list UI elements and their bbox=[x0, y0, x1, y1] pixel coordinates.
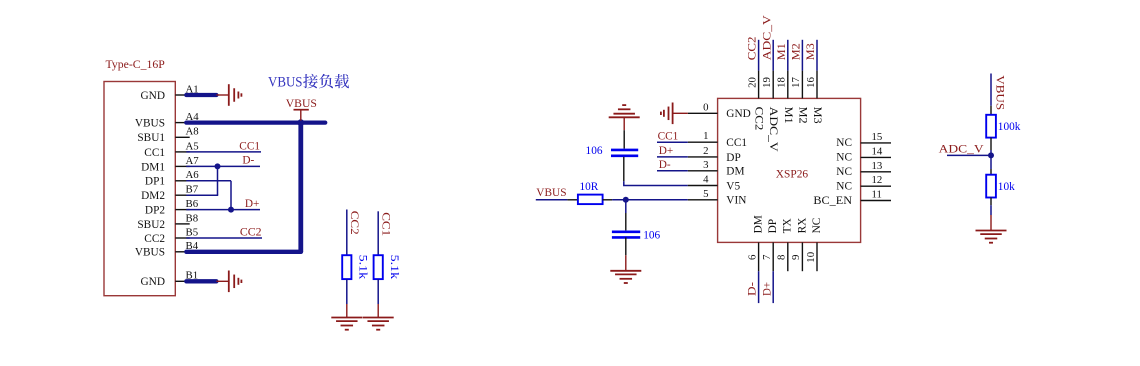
svg-text:ADC_V: ADC_V bbox=[761, 14, 773, 60]
net label CC2 (rotated) bbox=[348, 211, 360, 235]
capacitor C1 106 lead top bbox=[623, 130, 625, 148]
wire B6 DP2 bbox=[186, 209, 260, 211]
svg-text:NC: NC bbox=[836, 152, 852, 164]
resistor value 10R bbox=[580, 181, 599, 193]
svg-text:B7: B7 bbox=[186, 184, 199, 196]
svg-text:15: 15 bbox=[872, 131, 883, 143]
ground at A1 bbox=[216, 84, 241, 106]
capacitor C1 106 plates bbox=[611, 150, 638, 156]
net label ADC_V bbox=[939, 144, 985, 156]
junction VBUS trunk top bbox=[297, 119, 304, 126]
svg-text:RX: RX bbox=[796, 218, 808, 234]
power port VBUS bbox=[286, 98, 317, 121]
wire node to 10k bbox=[990, 155, 992, 174]
IC pin 18 M1 (top) bbox=[776, 40, 794, 124]
wire CC2 B5 bbox=[186, 237, 262, 239]
svg-text:20: 20 bbox=[746, 77, 758, 88]
svg-text:10k: 10k bbox=[998, 181, 1015, 193]
svg-text:6: 6 bbox=[746, 254, 758, 260]
junction VIN node bbox=[623, 197, 629, 203]
svg-text:VBUS: VBUS bbox=[286, 98, 317, 110]
IC pin 15 NC bbox=[836, 131, 891, 149]
svg-text:8: 8 bbox=[776, 255, 788, 260]
svg-text:VBUS: VBUS bbox=[994, 75, 1006, 110]
wire VBUS B4 thick bbox=[186, 250, 301, 254]
IC pin 9 RX (bottom) bbox=[790, 218, 808, 272]
connector pin A6 DP1 bbox=[145, 169, 199, 188]
svg-text:9: 9 bbox=[790, 255, 802, 260]
svg-text:A5: A5 bbox=[186, 140, 199, 152]
svg-text:D-: D- bbox=[747, 282, 759, 296]
svg-text:5.1k: 5.1k bbox=[388, 255, 400, 280]
junction D- bbox=[215, 163, 221, 169]
svg-text:4: 4 bbox=[703, 174, 709, 186]
svg-text:VIN: VIN bbox=[726, 195, 746, 207]
IC pin 7 DP (bottom) bbox=[761, 219, 779, 271]
IC pin 17 M2 (top) bbox=[790, 40, 808, 124]
svg-text:NC: NC bbox=[836, 137, 852, 149]
junction ADC_V node bbox=[988, 152, 994, 158]
svg-text:A6: A6 bbox=[186, 169, 200, 181]
wire D- IC pin6 bbox=[758, 271, 760, 303]
svg-text:CC2: CC2 bbox=[747, 36, 759, 60]
svg-text:CC2: CC2 bbox=[240, 226, 262, 238]
svg-text:B5: B5 bbox=[186, 226, 199, 238]
net label CC1 (rotated) bbox=[379, 212, 391, 236]
svg-text:ADC_V: ADC_V bbox=[767, 107, 779, 153]
connector pin A8 SBU1 bbox=[137, 126, 198, 145]
svg-text:106: 106 bbox=[643, 230, 660, 242]
svg-text:16: 16 bbox=[805, 77, 817, 88]
svg-text:CC1: CC1 bbox=[379, 212, 391, 236]
svg-text:DM2: DM2 bbox=[141, 190, 165, 202]
svg-text:11: 11 bbox=[872, 189, 882, 201]
IC pin 12 NC bbox=[836, 174, 891, 192]
capacitor C2 value 106 bbox=[643, 230, 660, 242]
wire 100k to ADC_V node bbox=[990, 138, 992, 156]
resistor R? 10R body bbox=[578, 195, 603, 205]
resistor 5.1k (CC1 pulldown) body bbox=[374, 255, 383, 279]
svg-text:BC_EN: BC_EN bbox=[813, 195, 852, 207]
wire CC2 to ground bbox=[346, 279, 348, 317]
resistor 5.1k (CC2 pulldown) body bbox=[342, 255, 351, 279]
svg-text:19: 19 bbox=[761, 77, 773, 88]
note VBUS to load (Chinese) bbox=[268, 74, 349, 91]
svg-text:CC1: CC1 bbox=[239, 140, 260, 152]
svg-text:D+: D+ bbox=[761, 282, 773, 296]
op IC U1 XSP26 body bbox=[718, 98, 861, 242]
ground below C2 bbox=[610, 271, 641, 283]
resistor value 100k bbox=[998, 121, 1021, 133]
svg-text:GND: GND bbox=[726, 108, 750, 120]
resistor value 5.1k bbox=[357, 255, 369, 280]
svg-text:A7: A7 bbox=[186, 155, 200, 167]
svg-text:VBUS: VBUS bbox=[135, 247, 165, 259]
svg-text:ADC_V: ADC_V bbox=[939, 144, 985, 156]
svg-text:1: 1 bbox=[703, 130, 708, 142]
svg-text:GND: GND bbox=[141, 90, 165, 102]
connector pin B8 SBU2 bbox=[137, 212, 198, 231]
svg-text:D+: D+ bbox=[659, 145, 674, 157]
wire CC1 to ground bbox=[377, 279, 379, 317]
svg-text:18: 18 bbox=[776, 77, 788, 88]
svg-text:A8: A8 bbox=[186, 126, 199, 138]
capacitor C2 106 plates bbox=[612, 232, 640, 238]
svg-text:VBUS: VBUS bbox=[268, 74, 303, 90]
wire CC2 vertical bbox=[346, 210, 348, 256]
wire VBUS to 10R bbox=[536, 199, 578, 201]
svg-text:5.1k: 5.1k bbox=[357, 255, 369, 280]
connector pin B6 DP2 bbox=[145, 198, 199, 217]
wire D+ IC pin7 bbox=[772, 271, 774, 303]
IC name XSP26 bbox=[776, 168, 809, 180]
wire C1 to V5 pin bbox=[624, 157, 688, 186]
wire GND A1 thick bbox=[186, 93, 216, 97]
svg-text:SBU2: SBU2 bbox=[137, 219, 165, 231]
svg-text:CC1: CC1 bbox=[726, 137, 747, 149]
IC pin 19 ADC_V (top) bbox=[761, 14, 779, 152]
connector pin B7 DM2 bbox=[141, 184, 199, 203]
wire ADC_V bbox=[947, 154, 991, 156]
IC pin 0 GND bbox=[688, 101, 751, 120]
wire GND B1 thick bbox=[186, 279, 216, 283]
IC pin 13 NC bbox=[836, 160, 891, 178]
net label CC1 bbox=[239, 140, 260, 152]
capacitor C1 value 106 bbox=[586, 145, 603, 157]
wire DM2-DM1 vertical bbox=[217, 166, 219, 195]
svg-text:17: 17 bbox=[790, 77, 802, 88]
wire B7 DM2 bbox=[186, 194, 218, 196]
IC pin 14 NC bbox=[836, 145, 891, 163]
svg-text:3: 3 bbox=[703, 159, 708, 171]
IC pin 1 CC1 bbox=[688, 130, 747, 149]
svg-text:10R: 10R bbox=[580, 181, 599, 193]
wire VBUS vertical trunk bbox=[298, 123, 303, 252]
svg-text:DP2: DP2 bbox=[145, 205, 165, 217]
svg-text:XSP26: XSP26 bbox=[776, 168, 809, 180]
wire C2 to ground bbox=[625, 237, 627, 270]
net label D+ (bottom) bbox=[761, 282, 773, 296]
net label CC1 (IC pin1) bbox=[658, 130, 679, 142]
net label D- bbox=[242, 155, 254, 167]
svg-text:M2: M2 bbox=[796, 107, 808, 124]
svg-text:M3: M3 bbox=[811, 107, 823, 124]
svg-text:2: 2 bbox=[703, 145, 708, 157]
svg-text:DP: DP bbox=[767, 219, 779, 233]
svg-text:CC2: CC2 bbox=[753, 107, 765, 131]
svg-text:M2: M2 bbox=[791, 43, 803, 60]
connector J1 Type-C_16P designator bbox=[106, 57, 166, 71]
svg-text:CC1: CC1 bbox=[658, 130, 679, 142]
IC pin 11 BC_EN bbox=[813, 189, 891, 207]
connector J1 Type-C_16P body bbox=[104, 82, 175, 296]
wire CC1 A5 bbox=[186, 151, 261, 153]
connector pin A4 VBUS bbox=[135, 111, 199, 130]
IC pin 10 NC (bottom) bbox=[805, 218, 823, 272]
svg-text:VBUS: VBUS bbox=[536, 187, 566, 199]
resistor value 10k bbox=[998, 181, 1015, 193]
connector pin B1 GND bbox=[141, 270, 199, 289]
svg-text:DM1: DM1 bbox=[141, 161, 165, 173]
power port VBUS (divider, rotated) bbox=[994, 75, 1006, 110]
svg-text:NC: NC bbox=[836, 166, 852, 178]
net label D+ (IC pin2) bbox=[659, 145, 674, 157]
svg-text:V5: V5 bbox=[726, 180, 740, 192]
svg-text:7: 7 bbox=[761, 254, 773, 260]
IC pin 2 DP bbox=[688, 145, 741, 164]
svg-text:0: 0 bbox=[703, 101, 708, 113]
svg-text:VBUS: VBUS bbox=[135, 118, 165, 130]
wire D+ IC pin2 bbox=[657, 156, 688, 158]
wire D- IC pin3 bbox=[657, 170, 688, 172]
wire VBUS A4 thick horizontal bbox=[186, 120, 325, 124]
wire CC1 IC pin1 bbox=[657, 141, 688, 143]
svg-text:DM: DM bbox=[726, 166, 744, 178]
svg-text:M3: M3 bbox=[805, 43, 817, 60]
svg-text:NC: NC bbox=[836, 181, 852, 193]
connector pin A1 GND bbox=[141, 83, 199, 102]
svg-text:10: 10 bbox=[805, 252, 817, 263]
svg-text:D-: D- bbox=[659, 159, 671, 171]
svg-text:100k: 100k bbox=[998, 121, 1021, 133]
net label D- (IC pin3) bbox=[659, 159, 671, 171]
svg-text:D+: D+ bbox=[245, 198, 260, 210]
net label VBUS (10R input) bbox=[536, 187, 566, 199]
wire D- A7 bbox=[186, 165, 260, 167]
svg-text:14: 14 bbox=[872, 145, 883, 157]
svg-text:CC1: CC1 bbox=[144, 147, 165, 159]
connector pin A5 CC1 bbox=[144, 140, 198, 159]
wire VIN node down to C2 bbox=[625, 200, 627, 231]
ground (inverted) above C1 bbox=[609, 105, 640, 130]
svg-text:GND: GND bbox=[141, 276, 165, 288]
svg-text:B8: B8 bbox=[186, 212, 199, 224]
svg-text:M1: M1 bbox=[776, 43, 788, 60]
ground below 10k bbox=[976, 231, 1007, 243]
net label CC2 bbox=[240, 226, 262, 238]
svg-text:M1: M1 bbox=[782, 107, 794, 124]
svg-text:B6: B6 bbox=[186, 198, 199, 210]
resistor value 5.1k bbox=[388, 255, 400, 280]
resistor 100k body bbox=[986, 115, 996, 138]
resistor 10k body bbox=[986, 175, 996, 198]
wire VBUS top bbox=[990, 74, 992, 115]
IC pin 8 TX (bottom) bbox=[776, 218, 794, 271]
svg-text:13: 13 bbox=[872, 160, 883, 172]
svg-text:106: 106 bbox=[586, 145, 603, 157]
svg-text:DM: DM bbox=[753, 215, 765, 233]
ground below CC1 resistor bbox=[363, 318, 394, 330]
ground below CC2 resistor bbox=[331, 318, 362, 330]
svg-text:DP1: DP1 bbox=[145, 176, 165, 188]
svg-text:NC: NC bbox=[811, 218, 823, 234]
ground at B1 bbox=[216, 271, 241, 293]
ground at IC pin 0 bbox=[661, 103, 688, 125]
wire 10R to VIN bbox=[603, 199, 688, 201]
svg-text:DP: DP bbox=[726, 152, 740, 164]
wire DP1-DP2 vertical bbox=[230, 181, 232, 210]
svg-text:TX: TX bbox=[782, 218, 794, 233]
wire A6 DP1 bbox=[186, 180, 231, 182]
IC pin 16 M3 (top) bbox=[805, 40, 823, 124]
svg-text:5: 5 bbox=[703, 188, 708, 200]
svg-text:D-: D- bbox=[242, 155, 254, 167]
connector pin B4 VBUS bbox=[135, 240, 199, 259]
svg-text:Type-C_16P: Type-C_16P bbox=[106, 57, 166, 71]
connector pin B5 CC2 bbox=[144, 226, 198, 245]
net label D- (bottom) bbox=[747, 282, 759, 296]
svg-text:12: 12 bbox=[872, 174, 883, 186]
wire CC1 vertical bbox=[377, 211, 379, 255]
wire 10k to ground bbox=[990, 198, 992, 231]
svg-text:SBU1: SBU1 bbox=[137, 132, 165, 144]
net label D+ bbox=[245, 198, 260, 210]
IC pin 4 V5 bbox=[688, 174, 741, 193]
IC pin 6 DM (bottom) bbox=[746, 215, 764, 271]
svg-text:CC2: CC2 bbox=[144, 233, 165, 245]
IC pin 20 CC2 (top) bbox=[746, 36, 764, 131]
svg-text:CC2: CC2 bbox=[348, 211, 360, 235]
IC pin 5 VIN bbox=[688, 188, 747, 207]
junction D+ bbox=[228, 207, 234, 213]
IC pin 3 DM bbox=[688, 159, 745, 178]
connector pin A7 DM1 bbox=[141, 155, 199, 174]
